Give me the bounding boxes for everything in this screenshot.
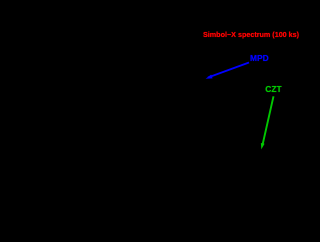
title: Simbol-X spectrum (100 ks) bbox=[203, 31, 299, 38]
label MPD bbox=[250, 54, 269, 62]
arrow to CZT curve (green) bbox=[261, 96, 274, 149]
arrow to MPD curve (blue) bbox=[206, 63, 249, 79]
label CZT bbox=[265, 85, 281, 93]
